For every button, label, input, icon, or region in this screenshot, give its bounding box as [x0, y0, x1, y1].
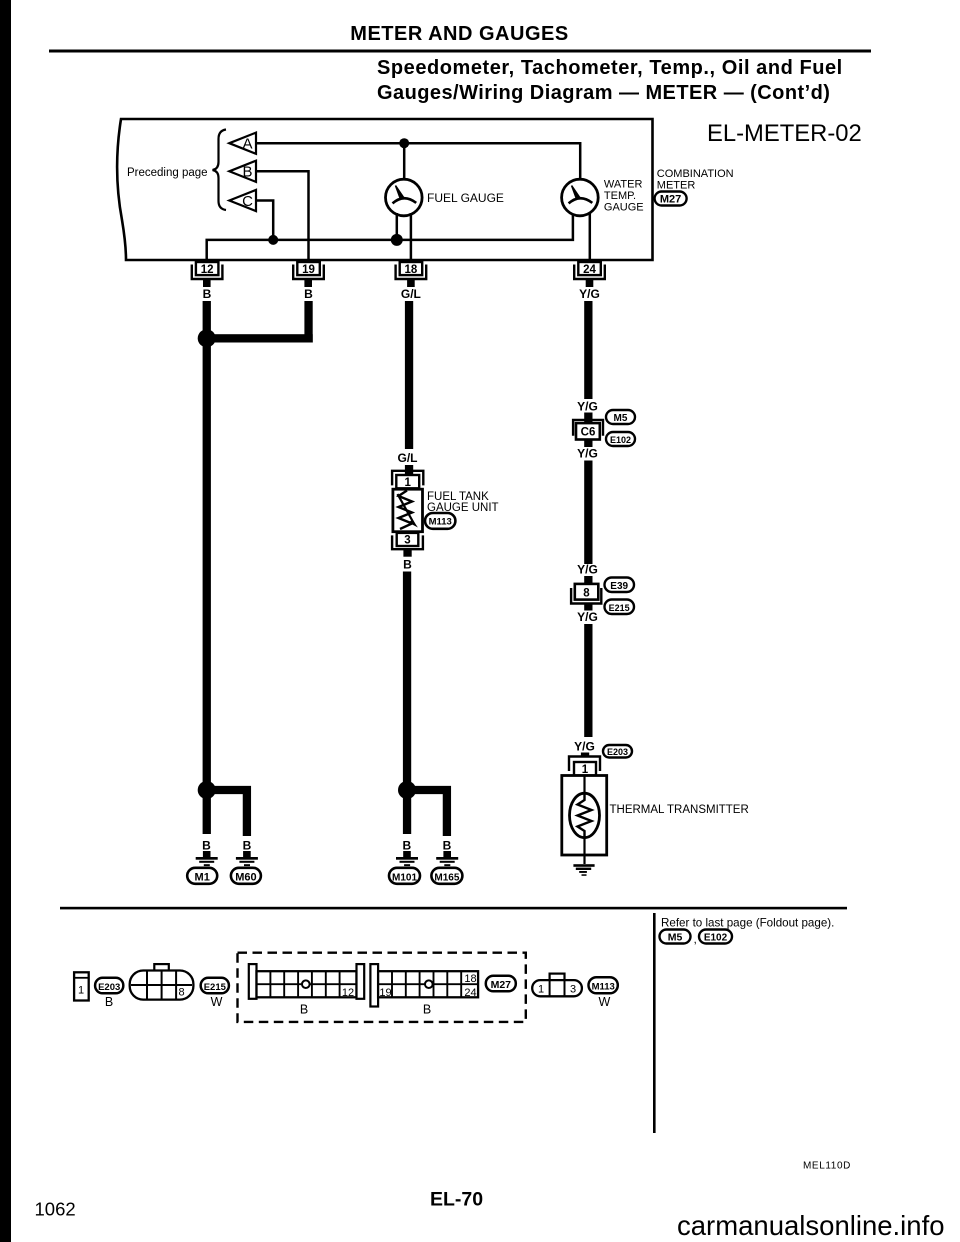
ground M165 [436, 851, 458, 866]
lead pin1 to element [583, 776, 585, 795]
svg-text:12: 12 [201, 264, 214, 276]
svg-text:B: B [403, 558, 412, 572]
svg-text:B: B [243, 839, 252, 853]
pin 24 wire label Y/G [579, 287, 600, 301]
water temp right leg to pin 24 [589, 213, 592, 263]
page code EL-METER-02 [707, 120, 862, 147]
svg-text:Y/G: Y/G [577, 563, 598, 577]
svg-text:M27: M27 [660, 194, 681, 206]
label Y/G above thermal transmitter [574, 740, 595, 754]
svg-text:1: 1 [582, 764, 589, 776]
wire G/L from pin 18 [405, 301, 413, 449]
svg-text:G/L: G/L [401, 287, 421, 301]
svg-text:B: B [300, 1003, 308, 1017]
connector id E102 footer [699, 930, 732, 944]
wire from A to water temp gauge [256, 143, 580, 179]
svg-text:carmanualsonline.info: carmanualsonline.info [677, 1210, 945, 1241]
footer vertical divider [653, 913, 656, 1133]
svg-text:E215: E215 [204, 982, 227, 993]
connector C6 [573, 420, 603, 440]
pin 18 wire label G/L [401, 287, 421, 301]
svg-text:M5: M5 [614, 413, 628, 424]
svg-text:1: 1 [404, 477, 411, 489]
svg-text:M1: M1 [195, 871, 210, 883]
svg-text:8: 8 [583, 587, 590, 599]
svg-text:12: 12 [342, 987, 354, 999]
svg-text:B: B [443, 839, 452, 853]
connector id M27 [655, 192, 687, 206]
ground M1 [196, 851, 218, 866]
wire branch to M165 ground [407, 790, 447, 836]
svg-text:M113: M113 [429, 517, 452, 528]
pin 19 [293, 262, 324, 287]
svg-text:M113: M113 [592, 982, 615, 993]
label W under E215 [211, 995, 223, 1009]
svg-text:W: W [211, 995, 223, 1009]
page number EL-70 [430, 1189, 483, 1211]
svg-text:24: 24 [583, 264, 596, 276]
connector id E39 [605, 578, 635, 593]
svg-text:MEL110D: MEL110D [803, 1161, 851, 1172]
svg-text:W: W [598, 995, 610, 1009]
label Preceding page [127, 167, 208, 179]
svg-text:19: 19 [379, 987, 391, 999]
wire B from fuel tank unit down [403, 572, 411, 835]
node C arrow [229, 190, 256, 211]
junction C on bus [268, 235, 278, 245]
svg-text:COMBINATION: COMBINATION [657, 168, 734, 180]
ground bus inside meter [207, 214, 573, 263]
label THERMAL TRANSMITTER [610, 804, 749, 816]
svg-text:E102: E102 [704, 932, 728, 943]
label Y/G above C6 [577, 400, 598, 414]
svg-text:18: 18 [464, 973, 476, 985]
pin 24 [574, 262, 605, 287]
label B at M165 ground [443, 839, 452, 853]
svg-text:METER: METER [657, 180, 696, 192]
svg-text:1062: 1062 [35, 1199, 76, 1220]
svg-text:8: 8 [179, 987, 185, 999]
label FUEL GAUGE [427, 191, 504, 205]
label B under right half [423, 1003, 431, 1017]
svg-text:EL-METER-02: EL-METER-02 [707, 120, 862, 147]
junction on wire A above fuel gauge [399, 138, 409, 148]
note Refer to last page [661, 917, 834, 930]
wire junction A down to fuel gauge [403, 143, 406, 179]
connector id M60 [231, 868, 261, 884]
label COMBINATION METER [657, 168, 734, 192]
label B under E203 [105, 995, 113, 1009]
label Y/G below conn 8 [577, 610, 598, 624]
connector face M27 left half [249, 964, 364, 999]
junction B wires [198, 329, 216, 347]
svg-text:WATER: WATER [604, 179, 643, 191]
fuel tank variable resistor [398, 491, 418, 530]
svg-text:M165: M165 [434, 872, 459, 883]
svg-text:,: , [694, 932, 697, 946]
thermal element [570, 793, 600, 837]
dashed meter connector group box [238, 953, 526, 1022]
junction B split to grounds [198, 781, 216, 799]
water temp gauge U2 [562, 179, 599, 216]
combination meter box outline [117, 119, 652, 260]
wire branch to M60 ground [207, 790, 247, 836]
stub below C6 [584, 440, 592, 448]
svg-text:METER AND GAUGES: METER AND GAUGES [350, 23, 568, 45]
subtitle line 2 [377, 82, 830, 104]
svg-text:C: C [242, 193, 253, 210]
connector id E203 footer [95, 978, 123, 994]
brace grouping A B C [213, 130, 227, 211]
svg-text:B: B [423, 1003, 431, 1017]
stub below pin 3 [403, 549, 411, 557]
title METER AND GAUGES [350, 23, 568, 45]
lead element to ground [583, 838, 585, 864]
connector id E203 [603, 745, 632, 758]
drawing number MEL110D [803, 1161, 851, 1172]
svg-text:B: B [203, 287, 212, 301]
stub below conn 8 [584, 604, 592, 611]
svg-text:E203: E203 [607, 747, 628, 757]
svg-text:THERMAL TRANSMITTER: THERMAL TRANSMITTER [610, 804, 749, 816]
wire Y/G from pin 24 [584, 301, 592, 399]
svg-text:TEMP.: TEMP. [604, 190, 636, 202]
svg-text:Y/G: Y/G [574, 740, 595, 754]
label B at M101 ground [402, 839, 411, 853]
pin 12 wire label B [203, 287, 212, 301]
svg-text:E203: E203 [98, 982, 120, 993]
header rule [49, 50, 871, 53]
svg-text:A: A [242, 136, 252, 153]
connector face M113 [532, 974, 582, 997]
wire B from pin 19 down [304, 301, 312, 343]
book page 1062 [35, 1199, 76, 1220]
wire Y/G middle run [584, 461, 592, 565]
svg-text:Gauges/Wiring Diagram — METER: Gauges/Wiring Diagram — METER — (Cont’d) [377, 82, 830, 104]
pin 12 [192, 262, 223, 287]
svg-text:3: 3 [570, 984, 576, 996]
svg-text:Y/G: Y/G [577, 400, 598, 414]
svg-text:E215: E215 [609, 603, 630, 613]
svg-text:24: 24 [464, 987, 476, 999]
svg-text:FUEL GAUGE: FUEL GAUGE [427, 191, 504, 205]
wire B from pin 12 down [203, 301, 211, 834]
svg-text:19: 19 [302, 264, 315, 276]
svg-text:C6: C6 [581, 427, 596, 439]
label WATER TEMP. GAUGE [604, 179, 644, 214]
fuel tank gauge unit body [393, 489, 423, 532]
stub into thermal pin 1 [581, 753, 589, 758]
connector id M1 [187, 868, 217, 884]
svg-text:E39: E39 [610, 581, 628, 592]
connector id E102 [606, 432, 635, 446]
wire from C to bus [256, 201, 273, 240]
fuel gauge U1 [386, 179, 423, 216]
svg-text:GAUGE: GAUGE [604, 202, 644, 214]
label W under M113 [598, 995, 610, 1009]
separator rule [60, 907, 847, 910]
subtitle line 1 [377, 57, 843, 79]
junction bus below fuel gauge [391, 234, 403, 246]
thermal transmitter pin 1 [569, 757, 600, 776]
fuel gauge left leg to bus [396, 213, 399, 240]
svg-text:B: B [304, 287, 313, 301]
fuel tank unit pin 1 [392, 471, 423, 489]
svg-text:3: 3 [404, 535, 410, 547]
svg-text:Y/G: Y/G [577, 447, 598, 461]
label B at M60 ground [243, 839, 252, 853]
connector id M113 footer [589, 977, 618, 993]
connector face E203 1-pin [74, 972, 89, 1000]
label B below fuel tank unit [403, 558, 412, 572]
svg-text:B: B [402, 839, 411, 853]
connector 8 [571, 584, 601, 604]
pin 18 [396, 262, 427, 287]
thermal transmitter body [562, 776, 607, 856]
connector id M27 footer [486, 976, 516, 992]
svg-text:Y/G: Y/G [579, 287, 600, 301]
wire from B down to pin 19 [256, 171, 309, 263]
label B at M1 ground [202, 839, 211, 853]
connector id M5 footer [660, 930, 691, 944]
svg-text:B: B [242, 164, 252, 181]
stub into fuel tank unit pin 1 [405, 465, 413, 475]
label Y/G below C6 [577, 447, 598, 461]
svg-text:M101: M101 [392, 872, 417, 883]
svg-text:B: B [105, 995, 113, 1009]
fuel gauge right leg to pin 18 [410, 213, 413, 263]
ground thermal transmitter [573, 864, 594, 876]
ground M60 [236, 851, 258, 866]
svg-text:M27: M27 [491, 979, 512, 991]
svg-text:Preceding page: Preceding page [127, 167, 208, 179]
svg-text:Refer to last page (Foldout pa: Refer to last page (Foldout page). [661, 917, 834, 930]
connector id M165 [431, 868, 462, 884]
svg-text:E102: E102 [610, 435, 631, 445]
connector face M27 right half [370, 964, 478, 1006]
left black binding bar [0, 0, 11, 1242]
svg-text:M5: M5 [668, 932, 683, 944]
node A arrow [229, 133, 256, 154]
svg-text:18: 18 [405, 264, 418, 276]
watermark carmanualsonline.info [677, 1210, 945, 1241]
connector face E215 8-pin [130, 964, 194, 1000]
stub into conn 8 [584, 576, 592, 584]
pin 19 wire label B [304, 287, 313, 301]
fuel tank unit pin 3 [392, 533, 423, 549]
comma separator [694, 932, 697, 946]
svg-text:Y/G: Y/G [577, 610, 598, 624]
svg-text:Speedometer, Tachometer, Temp.: Speedometer, Tachometer, Temp., Oil and … [377, 57, 843, 79]
label Y/G above conn 8 [577, 563, 598, 577]
svg-text:B: B [202, 839, 211, 853]
svg-text:EL-70: EL-70 [430, 1189, 483, 1211]
svg-text:G/L: G/L [398, 451, 418, 465]
wire link 19 to 12 [206, 334, 313, 342]
label FUEL TANK GAUGE UNIT [427, 491, 499, 514]
ground M101 [396, 851, 418, 866]
stub into C6 [584, 413, 592, 423]
node B arrow [229, 161, 256, 182]
svg-text:M60: M60 [235, 871, 256, 883]
wire Y/G lower run [584, 624, 592, 737]
connector id M5 [606, 410, 635, 424]
connector id M113 [425, 513, 455, 529]
svg-text:1: 1 [78, 985, 84, 997]
connector id E215 [605, 600, 635, 615]
connector id M101 [389, 868, 420, 884]
label B under left half [300, 1003, 308, 1017]
connector id E215 footer [201, 978, 229, 994]
label G/L [398, 451, 418, 465]
svg-text:1: 1 [538, 984, 544, 996]
junction G/L B split [398, 781, 416, 799]
